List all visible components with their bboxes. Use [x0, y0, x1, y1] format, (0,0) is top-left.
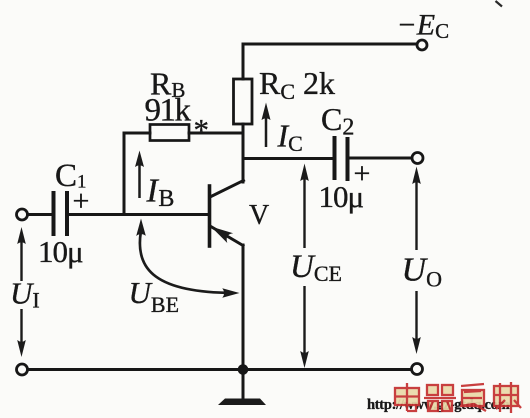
- wire top supply rail: [243, 43, 417, 46]
- transistor V base bar: [208, 186, 212, 246]
- wire ground stem: [242, 370, 245, 400]
- wire RB left lead: [124, 132, 150, 135]
- watermark chinese character 4: [493, 382, 521, 413]
- svg-text:91k: 91k: [145, 93, 192, 129]
- wire bottom rail: [28, 368, 412, 371]
- stray scan mark top right: [496, 1, 503, 7]
- current arrow IC: [262, 103, 271, 148]
- terminal -EC supply: [417, 40, 427, 50]
- wire C2 to output terminal: [350, 157, 412, 160]
- wire input to C1: [28, 213, 52, 216]
- watermark chinese character 3: [460, 384, 486, 411]
- voltage arrow UO (double headed): [412, 167, 421, 355]
- capacitor C1 plates: [52, 193, 56, 234]
- wire top rail down to RC: [242, 44, 245, 79]
- resistor RB: [150, 125, 189, 141]
- svg-text:RC 2k: RC 2k: [259, 65, 335, 104]
- svg-text:+: +: [73, 185, 90, 218]
- junction dot emitter/bottom rail: [238, 364, 249, 375]
- wire RC bottom to collector branch: [242, 124, 245, 182]
- terminal output top: [412, 153, 423, 164]
- capacitor C2 plates: [333, 138, 337, 178]
- resistor RC: [234, 79, 253, 124]
- terminal input top: [17, 209, 28, 220]
- svg-text:*: *: [194, 112, 210, 147]
- voltage arc UBE (double headed): [136, 219, 239, 298]
- voltage arrow UCE (double headed): [300, 164, 309, 369]
- svg-text:10μ: 10μ: [319, 179, 364, 214]
- voltage arrow UI (double headed): [17, 227, 26, 357]
- ground bar: [218, 399, 266, 406]
- svg-text:10μ: 10μ: [38, 234, 83, 269]
- terminal input bottom: [17, 364, 28, 375]
- wire C1 to transistor base: [69, 213, 208, 216]
- transistor V emitter lead: [210, 226, 243, 246]
- transistor V emitter arrowhead (PNP, points to base): [211, 227, 233, 244]
- current arrow IB: [135, 151, 144, 199]
- wire RB vertical to base node: [123, 133, 126, 214]
- svg-text:V: V: [249, 200, 269, 231]
- transistor V collector lead: [210, 181, 244, 198]
- wire collector node to C2: [243, 157, 332, 160]
- watermark chinese character 1: [395, 382, 521, 413]
- wire emitter down to ground node: [242, 245, 245, 369]
- terminal output bottom: [412, 364, 423, 375]
- wire RB right lead to collector branch: [189, 132, 243, 135]
- watermark chinese character 2: [424, 385, 456, 411]
